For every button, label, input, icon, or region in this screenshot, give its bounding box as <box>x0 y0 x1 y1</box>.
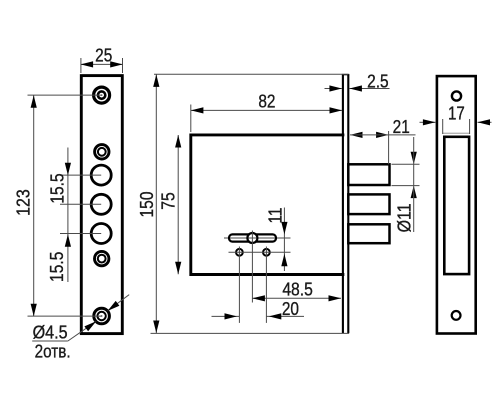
svg-text:2.5: 2.5 <box>367 70 389 91</box>
svg-text:75: 75 <box>157 192 178 209</box>
svg-text:150: 150 <box>136 192 157 218</box>
svg-text:21: 21 <box>393 116 410 137</box>
svg-text:17: 17 <box>448 102 465 123</box>
svg-text:82: 82 <box>258 91 275 112</box>
svg-text:123: 123 <box>12 189 33 216</box>
svg-text:2отв.: 2отв. <box>35 340 71 361</box>
svg-text:11: 11 <box>264 208 285 224</box>
svg-text:15.5: 15.5 <box>47 173 68 203</box>
svg-text:48.5: 48.5 <box>282 279 313 300</box>
svg-text:20: 20 <box>282 298 299 319</box>
svg-text:Ø4.5: Ø4.5 <box>33 321 68 342</box>
svg-text:Ø11: Ø11 <box>394 203 415 232</box>
svg-text:25: 25 <box>95 45 112 66</box>
svg-text:15.5: 15.5 <box>46 252 67 282</box>
